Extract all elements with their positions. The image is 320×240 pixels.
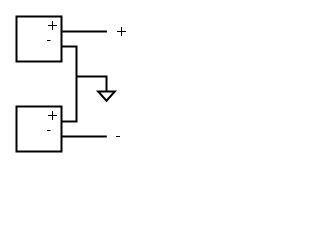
U1 minus label xyxy=(47,40,51,42)
U1 plus label xyxy=(48,21,57,30)
U2 minus label xyxy=(47,130,51,132)
wire U1 minus to U2 plus xyxy=(62,47,77,122)
source block U1 xyxy=(17,17,62,62)
terminal + label xyxy=(117,27,126,36)
wire U1 plus to terminal xyxy=(62,31,107,33)
terminal - label xyxy=(116,136,120,138)
U2 plus label xyxy=(48,111,57,120)
wire branch to ground xyxy=(77,77,107,92)
source block U2 xyxy=(17,107,62,152)
ground xyxy=(98,92,115,101)
wire U2 minus to terminal xyxy=(62,136,107,138)
